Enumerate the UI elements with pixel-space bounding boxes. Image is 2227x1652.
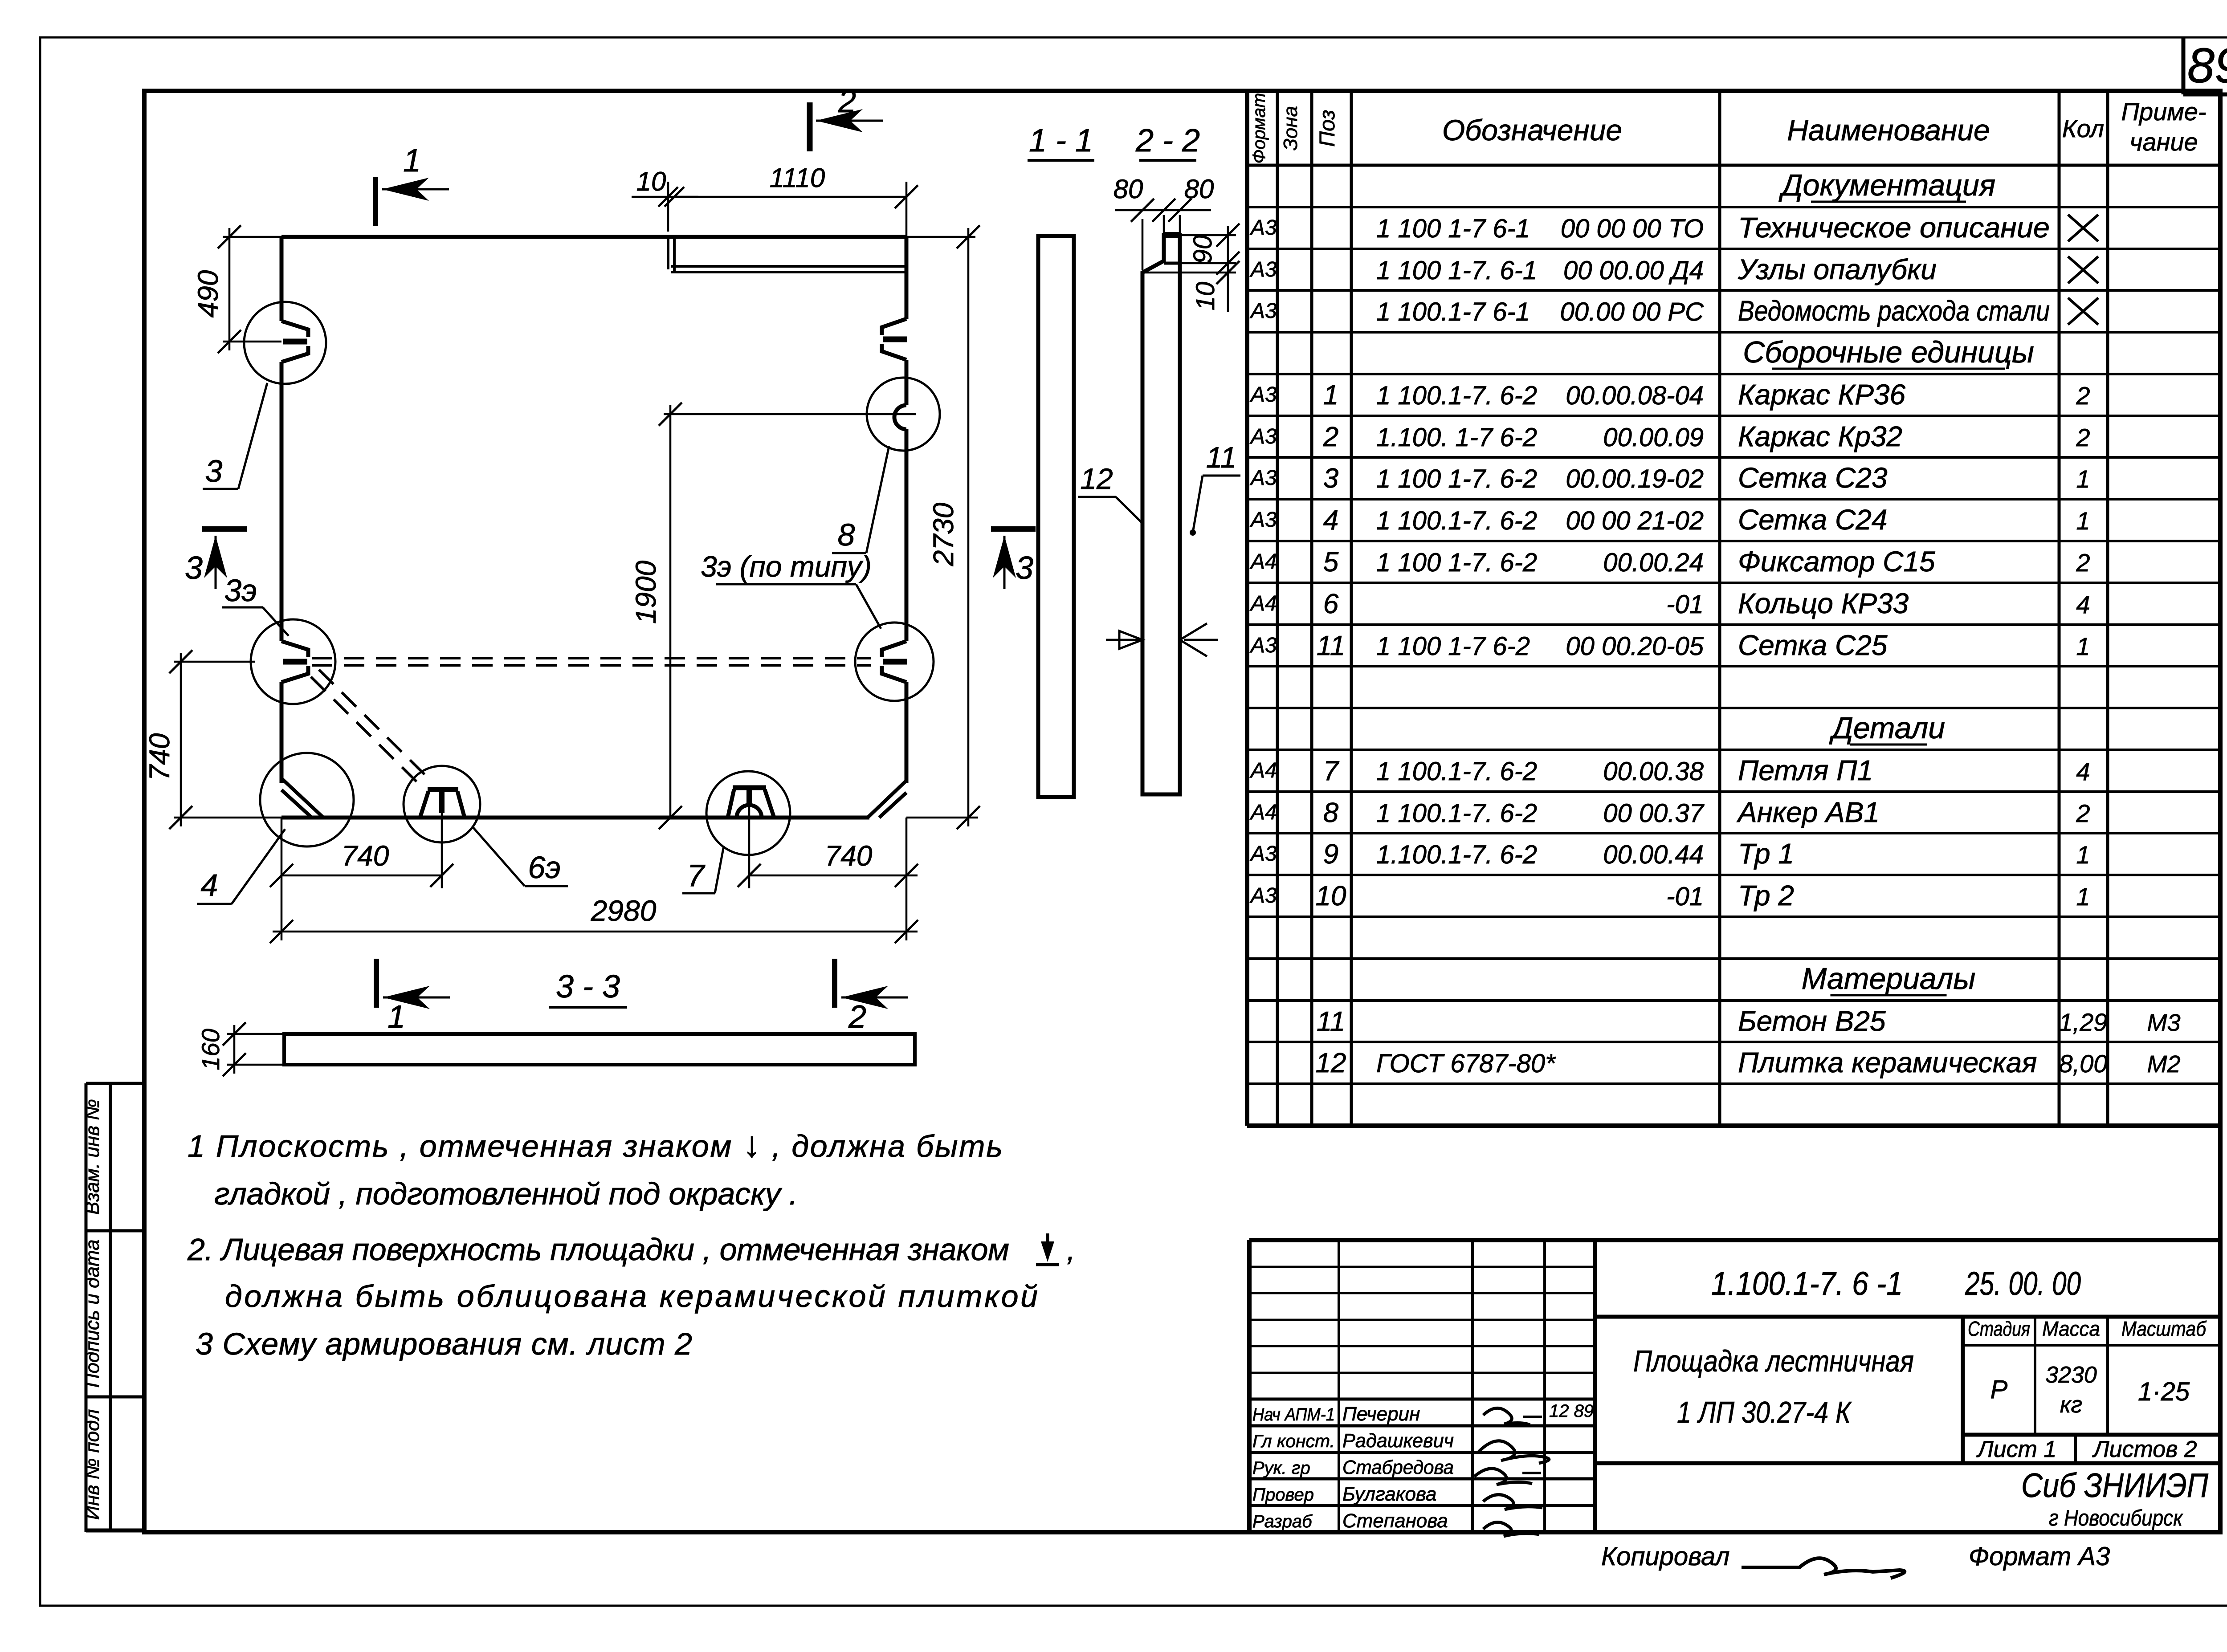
fixator 6e trapezoid: [428, 787, 458, 792]
svg-text:80: 80: [1113, 174, 1143, 204]
section mark 2 bottom: [832, 959, 837, 1008]
svg-text:А4: А4: [1249, 550, 1277, 574]
svg-text:2: 2: [2076, 382, 2090, 410]
svg-text:1.100. 1-7 6-2: 1.100. 1-7 6-2: [1376, 423, 1537, 452]
svg-text:1: 1: [2076, 507, 2090, 535]
svg-text:Формат: Формат: [1249, 93, 1269, 164]
svg-text:00.00.08-04: 00.00.08-04: [1566, 381, 1704, 410]
svg-text:А4: А4: [1249, 801, 1277, 824]
svg-text:4: 4: [2076, 757, 2090, 785]
svg-text:Лист 1: Лист 1: [1976, 1436, 2056, 1462]
svg-text:А3: А3: [1249, 383, 1277, 407]
svg-text:1110: 1110: [770, 163, 825, 193]
svg-text:490: 490: [192, 270, 224, 317]
svg-text:00.00.44: 00.00.44: [1603, 840, 1704, 869]
section mark 1 bottom: [374, 959, 379, 1008]
svg-text:10: 10: [1316, 881, 1346, 911]
svg-text:Разраб: Разраб: [1252, 1512, 1313, 1531]
svg-text:3э (по типу): 3э (по типу): [701, 550, 872, 583]
svg-text:00 00.00 Д4: 00 00.00 Д4: [1563, 256, 1704, 285]
section mark 1 top: [373, 177, 378, 226]
svg-text:Зона: Зона: [1280, 106, 1301, 151]
svg-text:1 100.1-7. 6-2: 1 100.1-7. 6-2: [1376, 799, 1537, 828]
svg-text:3: 3: [185, 550, 203, 586]
svg-text:Детали: Детали: [1829, 711, 1945, 745]
svg-text:Сетка С25: Сетка С25: [1738, 629, 1888, 661]
svg-text:Гл конст.: Гл конст.: [1252, 1432, 1335, 1451]
svg-text:10: 10: [1191, 282, 1220, 311]
svg-text:11: 11: [1317, 631, 1345, 661]
section mark 3 right: [991, 526, 1036, 532]
svg-text:1 100 1-7. 6-1: 1 100 1-7. 6-1: [1376, 256, 1537, 285]
svg-text:00 00 00 ТО: 00 00 00 ТО: [1561, 214, 1704, 243]
svg-text:1: 1: [2076, 632, 2090, 660]
svg-text:А3: А3: [1249, 842, 1277, 866]
title block: [1249, 1238, 2220, 1242]
svg-text:3: 3: [205, 454, 223, 488]
svg-text:Инв № подл: Инв № подл: [82, 1409, 103, 1520]
svg-text:3: 3: [1016, 550, 1033, 586]
svg-text:Каркас Кр32: Каркас Кр32: [1738, 420, 1902, 452]
svg-text:9: 9: [1323, 839, 1338, 870]
svg-text:Петля П1: Петля П1: [1738, 754, 1873, 786]
svg-text:740: 740: [143, 733, 175, 781]
svg-text:Рук. гр: Рук. гр: [1252, 1458, 1310, 1478]
detail circle 8 (anchor): [867, 378, 940, 451]
svg-text:7: 7: [687, 858, 706, 893]
svg-text:Стабредова: Стабредова: [1342, 1457, 1454, 1478]
hidden double dashed line between grooves: [312, 657, 871, 659]
svg-text:г Новосибирск: г Новосибирск: [2049, 1506, 2183, 1530]
svg-text:8,00: 8,00: [2059, 1050, 2108, 1078]
dim 160 (section 3-3): [227, 1033, 284, 1035]
svg-text:1.100.1-7. 6-2: 1.100.1-7. 6-2: [1376, 840, 1537, 869]
detail circle 4 (corner): [260, 753, 354, 846]
svg-text:2: 2: [848, 999, 866, 1035]
svg-text:Анкер АВ1: Анкер АВ1: [1736, 796, 1880, 828]
svg-text:8: 8: [1323, 798, 1339, 828]
left edge with grooves: [280, 237, 284, 321]
svg-text:11: 11: [1317, 1006, 1345, 1037]
symbol arrow-to-bar: [1046, 1233, 1049, 1256]
svg-text:Сетка С23: Сетка С23: [1738, 462, 1888, 494]
svg-text:25. 00. 00: 25. 00. 00: [1965, 1265, 2081, 1302]
detail circle 3e right: [855, 623, 934, 701]
section 3-3 body: [284, 1034, 915, 1065]
svg-text:чание: чание: [2129, 128, 2198, 156]
svg-text:должна быть облицована к: должна быть облицована керамической плит…: [225, 1279, 1038, 1314]
svg-text:Копировал: Копировал: [1601, 1542, 1729, 1571]
svg-text:Р: Р: [1990, 1375, 2008, 1404]
svg-text:А4: А4: [1249, 759, 1277, 782]
dim 2980: [281, 818, 283, 940]
svg-text:Кольцо КР33: Кольцо КР33: [1738, 587, 1909, 619]
svg-text:5: 5: [1323, 547, 1339, 578]
svg-text:кг: кг: [2060, 1392, 2082, 1418]
section 2-2 body: [1142, 235, 1180, 794]
svg-text:00.00.24: 00.00.24: [1603, 548, 1704, 577]
svg-text:Булгакова: Булгакова: [1342, 1483, 1436, 1505]
svg-text:740: 740: [825, 840, 873, 872]
spec table grid: [1245, 91, 1249, 1126]
svg-text:А3: А3: [1249, 466, 1277, 490]
svg-text:12: 12: [1080, 462, 1113, 495]
svg-text:1 100.1-7. 6-2: 1 100.1-7. 6-2: [1376, 381, 1537, 410]
svg-text:2. Лицевая поверхность пло: 2. Лицевая поверхность площадки , отмече…: [187, 1232, 1009, 1267]
svg-text:1 100 1-7 6-2: 1 100 1-7 6-2: [1376, 632, 1530, 661]
svg-text:2: 2: [2076, 549, 2090, 577]
svg-text:Листов 2: Листов 2: [2092, 1436, 2197, 1462]
dim 90 and 10 (section 2-2): [1180, 234, 1236, 236]
svg-text:1·25: 1·25: [2138, 1377, 2190, 1406]
svg-text:А3: А3: [1249, 884, 1277, 907]
svg-text:8: 8: [838, 517, 855, 552]
detail circle 6e (fixator): [404, 766, 480, 842]
svg-text:Поз: Поз: [1316, 110, 1339, 146]
svg-text:3 Схему армирования см.: 3 Схему армирования см. лист 2: [196, 1326, 692, 1361]
svg-text:1 100.1-7 6-1: 1 100.1-7 6-1: [1376, 297, 1530, 326]
svg-text:А3: А3: [1249, 216, 1277, 240]
svg-text:7: 7: [1323, 756, 1340, 786]
svg-text:Степанова: Степанова: [1342, 1510, 1448, 1532]
svg-text:1 100 1-7. 6-2: 1 100 1-7. 6-2: [1376, 548, 1537, 577]
svg-text:00 00.37: 00 00.37: [1603, 799, 1705, 828]
svg-text:Формат А3: Формат А3: [1969, 1542, 2110, 1571]
svg-text:М2: М2: [2147, 1051, 2180, 1078]
svg-text:Тр 1: Тр 1: [1738, 838, 1794, 870]
svg-text:1.100.1-7. 6 -1: 1.100.1-7. 6 -1: [1711, 1265, 1903, 1302]
svg-text:160: 160: [196, 1029, 224, 1070]
svg-text:80: 80: [1184, 174, 1214, 204]
svg-text:Подпись и дата: Подпись и дата: [82, 1240, 103, 1388]
svg-text:Бетон В25: Бетон В25: [1738, 1005, 1886, 1037]
svg-text:4: 4: [2076, 590, 2090, 618]
dim 740 left vertical: [174, 661, 255, 663]
svg-text:00.00.09: 00.00.09: [1603, 423, 1704, 452]
svg-text:,: ,: [1067, 1232, 1075, 1267]
dim 740 bottom-right: [749, 875, 918, 877]
svg-text:А3: А3: [1249, 299, 1277, 323]
svg-text:А3: А3: [1249, 508, 1277, 532]
anchor AV1 notch (pos 8): [894, 405, 906, 429]
svg-text:2: 2: [1323, 422, 1338, 452]
top-right notch double line: [667, 237, 669, 269]
slab plan outline: bottom edge: [281, 816, 869, 820]
svg-text:Сетка С24: Сетка С24: [1738, 504, 1887, 536]
svg-text:2730: 2730: [927, 502, 959, 566]
page number box 89: [2182, 37, 2186, 94]
svg-text:Узлы опалубки: Узлы опалубки: [1738, 253, 1937, 285]
svg-text:Ведомость расхода стали: Ведомость расхода стали: [1738, 295, 2050, 327]
svg-text:2980: 2980: [591, 894, 657, 927]
svg-text:1 100.1-7. 6-2: 1 100.1-7. 6-2: [1376, 757, 1537, 786]
detail circle 7 (loop): [706, 771, 790, 855]
svg-text:Обозначение: Обозначение: [1442, 114, 1622, 146]
loop 7 trapezoid with arch: [733, 785, 766, 790]
svg-text:1 ЛП 30.27-4 К: 1 ЛП 30.27-4 К: [1677, 1396, 1852, 1429]
svg-text:12: 12: [1316, 1048, 1346, 1078]
section mark 2 top: [807, 102, 813, 151]
svg-text:2: 2: [838, 84, 856, 119]
svg-text:00 00.20-05: 00 00.20-05: [1566, 632, 1704, 661]
svg-text:3 - 3: 3 - 3: [556, 969, 620, 1005]
svg-text:ГОСТ 6787-80*: ГОСТ 6787-80*: [1376, 1049, 1556, 1078]
right edge with groove, anchor notch, chamfer: [905, 237, 909, 319]
svg-text:1,29: 1,29: [2059, 1008, 2108, 1036]
svg-text:Фиксатор С15: Фиксатор С15: [1738, 545, 1935, 578]
svg-text:Взам. инв №: Взам. инв №: [82, 1099, 103, 1215]
svg-text:2: 2: [2076, 799, 2090, 827]
svg-text:А3: А3: [1249, 425, 1277, 448]
svg-text:89: 89: [2187, 38, 2227, 93]
svg-text:10: 10: [636, 167, 666, 196]
svg-text:Тр 2: Тр 2: [1738, 879, 1794, 911]
svg-text:А3: А3: [1249, 634, 1277, 657]
svg-text:А3: А3: [1249, 258, 1277, 281]
svg-text:Радашкевич: Радашкевич: [1342, 1430, 1454, 1452]
svg-text:1: 1: [2076, 883, 2090, 911]
svg-text:6: 6: [1323, 589, 1339, 619]
svg-text:Плитка керамическая: Плитка керамическая: [1738, 1046, 2037, 1078]
svg-text:1900: 1900: [630, 560, 662, 624]
svg-text:2 - 2: 2 - 2: [1135, 123, 1200, 159]
svg-text:6э: 6э: [528, 850, 560, 885]
svg-text:00.00.38: 00.00.38: [1603, 757, 1704, 786]
svg-text:Кол: Кол: [2062, 114, 2105, 142]
svg-text:Приме-: Приме-: [2121, 98, 2206, 126]
svg-text:1 100.1-7. 6-2: 1 100.1-7. 6-2: [1376, 506, 1537, 535]
svg-text:1 - 1: 1 - 1: [1029, 123, 1093, 159]
svg-text:1 Плоскость , отмеченная зна: 1 Плоскость , отмеченная знаком ↓ , долж…: [188, 1124, 1003, 1165]
svg-text:00.00.19-02: 00.00.19-02: [1566, 464, 1704, 493]
svg-text:Техническое описание: Техническое описание: [1738, 212, 2050, 244]
svg-text:Материалы: Материалы: [1802, 962, 1976, 996]
bottom-right corner chamfer: [868, 781, 906, 818]
svg-text:-01: -01: [1666, 590, 1704, 619]
svg-text:Сборочные единицы: Сборочные единицы: [1743, 335, 2034, 369]
dim 1900: [664, 413, 916, 415]
svg-text:00.00 00 РС: 00.00 00 РС: [1560, 297, 1705, 326]
svg-text:90: 90: [1188, 235, 1217, 264]
svg-text:Масштаб: Масштаб: [2121, 1317, 2207, 1340]
detail circle 3e left: [251, 619, 335, 704]
left strip boxes: [85, 1083, 88, 1532]
svg-text:Документация: Документация: [1778, 168, 1995, 202]
svg-text:1: 1: [387, 999, 405, 1035]
section mark 3 left: [202, 526, 247, 532]
svg-text:4: 4: [201, 868, 218, 903]
svg-text:1 100 1-7. 6-2: 1 100 1-7. 6-2: [1376, 464, 1537, 493]
svg-text:Нач АПМ-1: Нач АПМ-1: [1252, 1405, 1335, 1424]
svg-text:М3: М3: [2147, 1009, 2180, 1036]
svg-text:Масса: Масса: [2042, 1317, 2100, 1340]
bottom-left corner chamfer (pos 4): [281, 778, 323, 818]
svg-text:1: 1: [2076, 841, 2090, 869]
svg-text:3230: 3230: [2045, 1362, 2097, 1388]
dim 2730: [906, 236, 975, 238]
svg-text:Каркас КР36: Каркас КР36: [1738, 378, 1906, 411]
svg-text:00 00 21-02: 00 00 21-02: [1566, 506, 1704, 535]
svg-text:Стадия: Стадия: [1968, 1317, 2030, 1340]
slab plan outline: top edge: [281, 235, 906, 239]
svg-text:12 89: 12 89: [1549, 1401, 1594, 1421]
svg-text:1: 1: [1323, 380, 1338, 411]
svg-text:11: 11: [1206, 441, 1237, 474]
svg-text:-01: -01: [1666, 882, 1704, 911]
section 1-1 body: [1038, 236, 1074, 797]
svg-text:1: 1: [2076, 465, 2090, 493]
svg-text:3: 3: [1323, 463, 1338, 494]
hidden dashed diagonal to fixator: [311, 677, 418, 783]
svg-text:А4: А4: [1249, 592, 1277, 615]
dim 80 80 (section 2-2): [1115, 209, 1211, 212]
svg-text:Площадка лестничная: Площадка лестничная: [1633, 1344, 1914, 1378]
svg-text:1 100 1-7 6-1: 1 100 1-7 6-1: [1376, 214, 1530, 243]
dim 740 bottom-left: [281, 875, 442, 877]
svg-text:3э: 3э: [224, 573, 257, 608]
svg-text:740: 740: [342, 840, 389, 872]
svg-text:гладкой , подготовленной под: гладкой , подготовленной под окраску .: [214, 1176, 798, 1211]
svg-text:Провер: Провер: [1252, 1485, 1314, 1505]
svg-text:4: 4: [1323, 505, 1338, 536]
svg-text:2: 2: [2076, 423, 2090, 452]
dim 1110: [674, 196, 906, 198]
signatures (squiggles): [1483, 1408, 1530, 1425]
svg-text:1: 1: [403, 143, 421, 179]
svg-text:Сиб ЗНИИЭП: Сиб ЗНИИЭП: [2021, 1467, 2209, 1505]
detail circle 3: [244, 302, 326, 384]
svg-text:Печерин: Печерин: [1342, 1403, 1420, 1425]
svg-text:Наименование: Наименование: [1787, 114, 1990, 146]
dim 490: [223, 236, 281, 238]
thickness arrows (section 2-2): [1106, 639, 1140, 641]
